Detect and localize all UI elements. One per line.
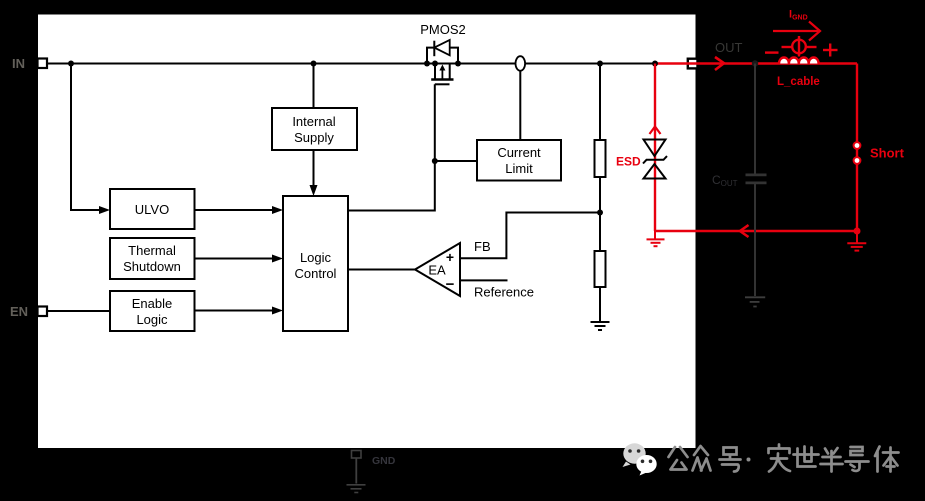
ESD diode (bidirectional TVS) (643, 140, 667, 179)
op-amp EA (415, 243, 460, 296)
body diode loop (427, 48, 458, 64)
arrowhead Internal Supply to Logic Control (310, 185, 318, 196)
svg-text:ESD: ESD (616, 155, 641, 169)
node return/ground junction (red) (854, 228, 861, 235)
svg-text:Limit: Limit (505, 161, 533, 176)
current sense element (516, 56, 526, 71)
current probe (red) (765, 36, 838, 57)
wire rail to Internal Supply (313, 64, 315, 109)
block Thermal Shutdown (110, 238, 195, 279)
公 (669, 447, 688, 470)
port OUT pad (688, 59, 698, 69)
svg-text:−: − (446, 276, 455, 293)
WeChat icon (623, 443, 657, 475)
svg-text:FB: FB (474, 239, 491, 254)
wire Thermal Shutdown to Logic Control (195, 258, 274, 260)
svg-text:OUT: OUT (715, 40, 743, 55)
arrow up on ESD branch (650, 127, 661, 135)
svg-text:Control: Control (295, 266, 337, 281)
port GND pad (bottom, dark) (352, 451, 362, 459)
svg-text:Short: Short (870, 146, 905, 161)
世 (794, 447, 819, 467)
svg-text:Logic: Logic (136, 312, 168, 327)
svg-text:EA: EA (428, 263, 446, 278)
block Internal Supply (272, 108, 357, 150)
wire output drop (red) (856, 64, 858, 232)
wire FB node to EA plus input (460, 213, 600, 259)
ground (GND, dark) (347, 485, 366, 493)
半 (821, 448, 843, 472)
arrowhead into ULVO (99, 206, 110, 214)
node rail/Internal Supply branch (311, 61, 317, 67)
diagram panel (38, 15, 696, 449)
ground (FB divider) (591, 322, 610, 330)
port IN pad (38, 59, 48, 69)
wire sense to Current Limit (519, 71, 521, 140)
arrowhead return (red chevron left) (740, 225, 749, 237)
channel bar (431, 78, 453, 80)
node PMOS2 right (455, 61, 461, 67)
svg-text:IN: IN (12, 56, 25, 71)
wire ULVO to Logic Control (195, 209, 274, 211)
svg-text:Logic: Logic (300, 250, 332, 265)
wire Cout branch (dark) (754, 64, 756, 174)
block Logic Control (283, 196, 348, 331)
svg-text:PMOS2: PMOS2 (420, 22, 466, 37)
众 (693, 446, 711, 471)
arrow I_GND (red) (773, 22, 820, 41)
switch Short (854, 142, 861, 164)
svg-text:+: + (446, 249, 454, 265)
drain stub (449, 64, 451, 80)
wire Reference to EA minus input (460, 279, 508, 281)
导 (846, 447, 869, 471)
· (747, 458, 751, 462)
svg-text:L_cable: L_cable (777, 76, 820, 88)
node output/Cout branch (752, 60, 758, 66)
ground (Short, red) (847, 231, 866, 251)
arrowhead Enable Logic to Logic Control (272, 307, 283, 315)
ground (Cout, dark) (745, 297, 765, 306)
svg-text:Internal: Internal (292, 114, 335, 129)
wire PMOS2 gate to Logic Control (348, 84, 435, 210)
wire rail to R1 (599, 64, 601, 141)
wire R2 to ground (599, 287, 601, 321)
gate plate (435, 83, 450, 85)
svg-text:Current: Current (497, 145, 541, 160)
wire Internal Supply to Logic Control (313, 150, 315, 186)
svg-text:GND: GND (372, 455, 396, 467)
resistor R2 (595, 251, 606, 287)
wire Cout to ground (dark) (754, 184, 756, 296)
block Current Limit (477, 140, 561, 181)
wire ESD branch (red) (654, 64, 656, 232)
node PMOS2 source (432, 61, 438, 67)
body arrow (441, 68, 443, 79)
wire EA output to Logic Control (348, 269, 415, 271)
svg-text:EN: EN (10, 304, 28, 319)
capacitor Cout (746, 175, 767, 183)
body diode triangle (434, 40, 449, 55)
svg-text:Thermal: Thermal (128, 243, 176, 258)
node rail/ULVO branch (68, 61, 74, 67)
svg-text:Supply: Supply (294, 130, 334, 145)
wire EN to Enable Logic (47, 310, 110, 312)
arrowhead Thermal Shutdown to Logic Control (272, 255, 283, 263)
wire IN rail (47, 63, 655, 65)
wire GND stem (dark) (355, 458, 357, 484)
arrowhead output (red chevron) (715, 57, 724, 70)
wire R1 to FB node (599, 177, 601, 213)
svg-text:Shutdown: Shutdown (123, 259, 181, 274)
号 (720, 448, 741, 472)
resistor R1 (595, 140, 606, 177)
wire Enable Logic to Logic Control (195, 310, 274, 312)
node rail/FB divider (597, 61, 603, 67)
body diode cathode bar (433, 41, 435, 57)
wire output rail (red) (655, 62, 857, 64)
node FB (597, 210, 603, 216)
transistor PMOS2 (427, 40, 458, 84)
block ULVO (110, 189, 195, 229)
ground (ESD, red) (647, 231, 665, 246)
svg-text:ULVO: ULVO (135, 202, 169, 217)
arrowhead ULVO to Logic Control (272, 206, 283, 214)
svg-text:Reference: Reference (474, 285, 534, 300)
wire IN to ULVO (71, 64, 100, 211)
port EN pad (38, 307, 48, 317)
source stub (434, 64, 436, 80)
wire return (red, bottom) (655, 230, 857, 232)
安 (769, 445, 791, 472)
node rail/ESD branch (652, 61, 658, 67)
node PMOS2 left (424, 61, 430, 67)
svg-text:Enable: Enable (132, 296, 172, 311)
体 (875, 447, 899, 472)
node gate/current-limit branch (432, 158, 438, 164)
footer text 公众号·安世半导体 (drawn strokes) (669, 445, 899, 472)
inductor L_cable (red) (779, 57, 819, 63)
block Enable Logic (110, 291, 195, 331)
wire FB node to R2 (599, 213, 601, 252)
wire gate branch to Current Limit (435, 160, 477, 162)
